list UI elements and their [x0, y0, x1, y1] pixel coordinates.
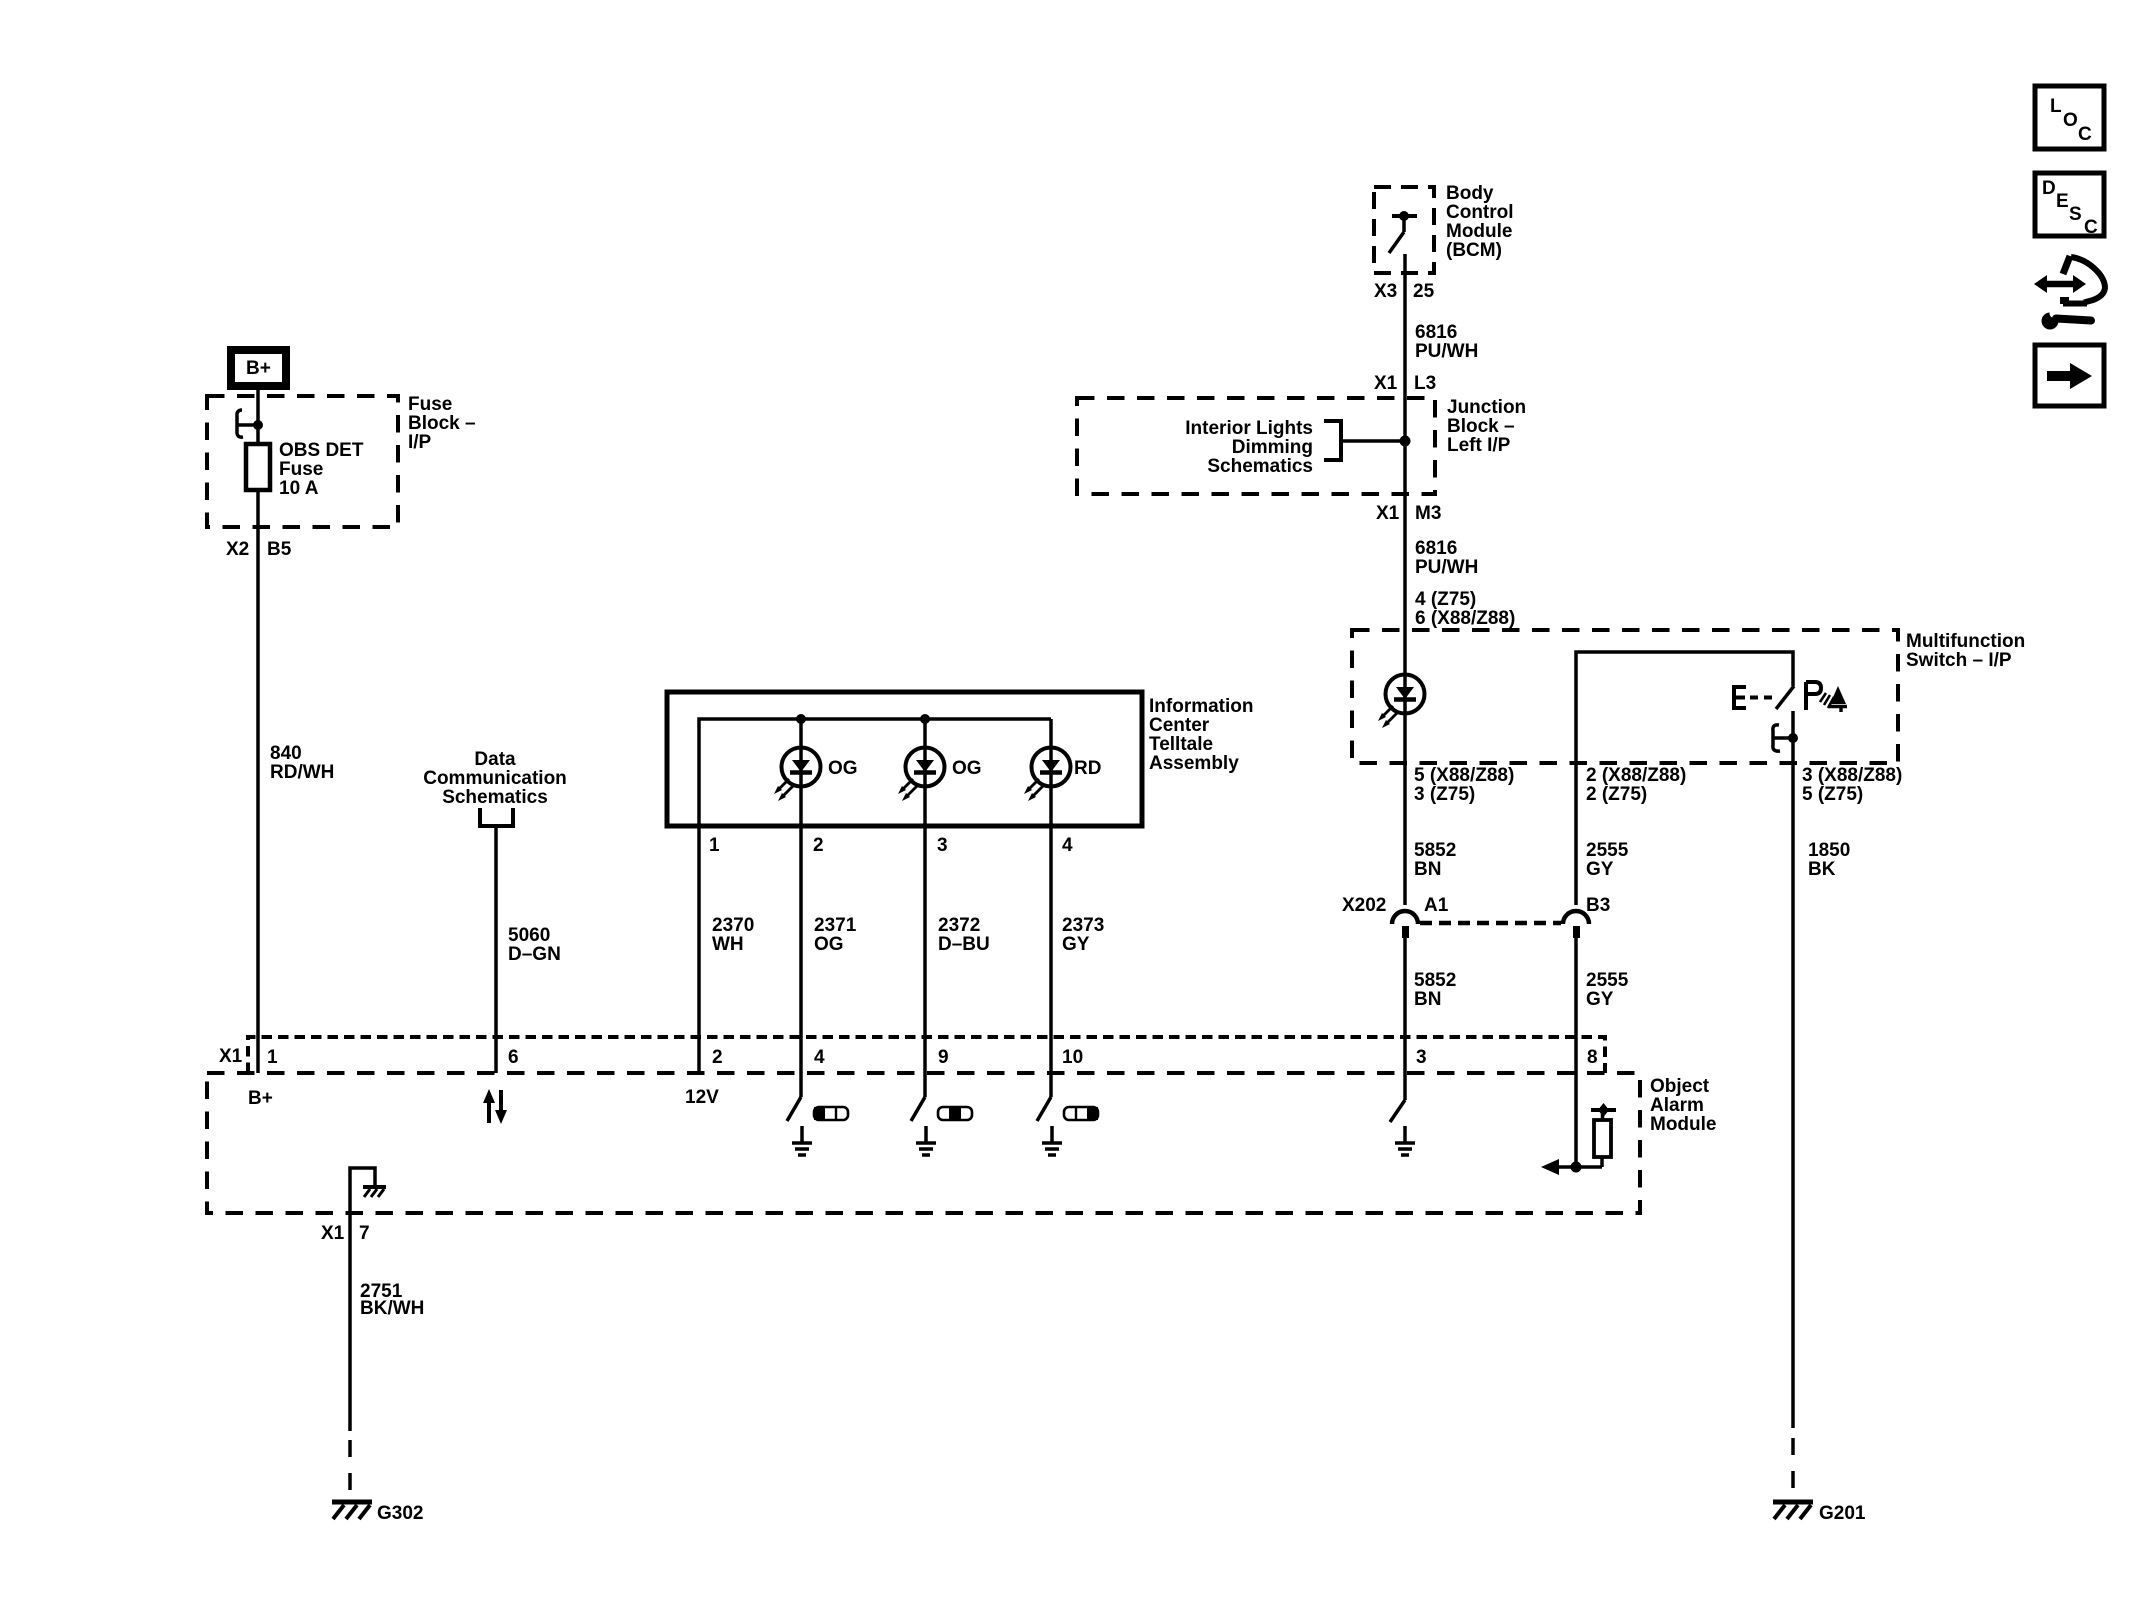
svg-text:3: 3 — [937, 835, 948, 856]
svg-text:OBS DET: OBS DET — [279, 440, 364, 461]
svg-text:Body: Body — [1446, 183, 1494, 204]
svg-text:8: 8 — [1587, 1047, 1598, 1068]
svg-text:Fuse: Fuse — [279, 459, 323, 480]
svg-text:2371: 2371 — [814, 915, 857, 936]
wire middle multifunction down to X202 — [1574, 763, 1578, 905]
svg-text:G302: G302 — [377, 1503, 423, 1524]
svg-text:L: L — [2050, 96, 2062, 117]
junction dot bus pin2 — [796, 714, 806, 724]
park switch supply loop wire — [1576, 652, 1793, 763]
information center telltale assembly box — [667, 692, 1142, 826]
wire BCM X3-25 down — [1403, 254, 1407, 630]
park switch blade — [1776, 686, 1794, 709]
svg-text:Junction: Junction — [1447, 397, 1526, 418]
svg-text:WH: WH — [712, 934, 744, 955]
svg-text:Information: Information — [1149, 696, 1254, 717]
ground wire dashes G201 — [1791, 1438, 1795, 1492]
svg-text:B3: B3 — [1586, 895, 1610, 916]
svg-text:Fuse: Fuse — [408, 394, 452, 415]
svg-text:1: 1 — [267, 1047, 278, 1068]
park switch actuator E — [1734, 687, 1746, 708]
svg-text:C: C — [2084, 217, 2098, 238]
svg-text:BK/WH: BK/WH — [360, 1298, 424, 1319]
svg-text:PU/WH: PU/WH — [1415, 557, 1478, 578]
svg-text:4 (Z75): 4 (Z75) — [1415, 589, 1476, 610]
fuse OBS DET 10A — [246, 444, 270, 490]
LED indicator OG 2 — [898, 719, 982, 1097]
connector X202 male terminal A1 — [1402, 926, 1409, 938]
svg-text:2555: 2555 — [1586, 970, 1629, 991]
svg-text:Object: Object — [1650, 1076, 1710, 1097]
svg-text:6816: 6816 — [1415, 322, 1457, 343]
wire 5060 D-GN — [494, 826, 498, 1073]
svg-text:5852: 5852 — [1414, 840, 1456, 861]
svg-text:1: 1 — [709, 835, 720, 856]
svg-text:6 (X88/Z88): 6 (X88/Z88) — [1415, 608, 1515, 629]
svg-text:BN: BN — [1414, 989, 1441, 1010]
driver switch pin 3 — [1390, 1100, 1415, 1155]
svg-text:PU/WH: PU/WH — [1415, 341, 1478, 362]
driver switch pin 4 — [787, 1097, 812, 1155]
svg-text:B5: B5 — [267, 539, 292, 560]
svg-text:BN: BN — [1414, 859, 1441, 880]
actuator dashed link — [1750, 696, 1772, 700]
svg-text:Assembly: Assembly — [1149, 753, 1239, 774]
wire B3 to module — [1574, 938, 1578, 1167]
junction block left I/P dashed box — [1077, 398, 1435, 494]
svg-text:X2: X2 — [226, 539, 249, 560]
signal arrow left — [1556, 1165, 1602, 1169]
wire LED column through box — [1403, 630, 1407, 905]
internal chassis ground — [363, 1187, 386, 1197]
svg-text:B+: B+ — [246, 358, 271, 379]
svg-text:B+: B+ — [248, 1088, 273, 1109]
beeper icon P with sound waves — [1806, 682, 1847, 712]
BCM internal switch — [1389, 211, 1417, 253]
junction dot park switch — [1788, 733, 1798, 743]
resistor top lead — [1601, 1112, 1605, 1120]
svg-text:1850: 1850 — [1808, 840, 1850, 861]
ground G201 — [1773, 1502, 1813, 1519]
junction dot fuse feed — [253, 420, 263, 430]
svg-text:2 (X88/Z88): 2 (X88/Z88) — [1586, 765, 1686, 786]
svg-text:10 A: 10 A — [279, 478, 319, 499]
svg-text:X1: X1 — [321, 1223, 345, 1244]
indicator cells pin 4 — [814, 1107, 848, 1120]
indicator cells pin 10 — [1064, 1107, 1098, 1120]
svg-text:GY: GY — [1586, 989, 1614, 1010]
svg-text:2372: 2372 — [938, 915, 980, 936]
wire bracket to junction — [1341, 439, 1405, 443]
internal supply T bar with diamond — [1591, 1108, 1616, 1112]
svg-text:M3: M3 — [1415, 503, 1441, 524]
DESC legend box — [2035, 173, 2104, 238]
svg-text:Center: Center — [1149, 715, 1210, 736]
svg-text:Dimming: Dimming — [1232, 437, 1313, 458]
svg-text:BK: BK — [1808, 859, 1836, 880]
object alarm module dashed box — [207, 1073, 1640, 1213]
data communication bracket — [480, 808, 513, 826]
svg-text:840: 840 — [270, 743, 302, 764]
svg-text:L3: L3 — [1414, 373, 1436, 394]
svg-text:5 (X88/Z88): 5 (X88/Z88) — [1414, 765, 1514, 786]
svg-text:Module: Module — [1446, 221, 1513, 242]
junction dot bus pin3 — [920, 714, 930, 724]
wire pin1 to X1 — [697, 826, 701, 1073]
repair icon wrench — [2042, 309, 2092, 330]
svg-text:5 (Z75): 5 (Z75) — [1802, 784, 1863, 805]
serial data down arrow — [499, 1090, 503, 1112]
connector X202 male terminal B3 — [1573, 926, 1580, 938]
svg-text:2: 2 — [813, 835, 824, 856]
svg-text:5060: 5060 — [508, 925, 550, 946]
fuse block I/P dashed box — [207, 396, 398, 527]
repair icon double arrow — [2034, 275, 2086, 293]
LED in multifunction switch — [1378, 675, 1425, 729]
svg-text:I/P: I/P — [408, 432, 432, 453]
svg-text:3 (X88/Z88): 3 (X88/Z88) — [1802, 765, 1902, 786]
svg-text:X1: X1 — [1374, 373, 1398, 394]
LED indicator RD — [1024, 719, 1101, 1097]
svg-text:6: 6 — [508, 1047, 519, 1068]
svg-text:OG: OG — [952, 758, 982, 779]
multifunction switch I/P dashed box — [1352, 630, 1898, 763]
wire through fuse down to module — [256, 490, 260, 1073]
svg-text:Schematics: Schematics — [1207, 456, 1313, 477]
svg-text:S: S — [2069, 204, 2082, 225]
svg-text:Telltale: Telltale — [1149, 734, 1213, 755]
svg-text:C: C — [2078, 124, 2092, 145]
svg-text:X202: X202 — [1342, 895, 1386, 916]
body control module BCM dashed box — [1374, 187, 1434, 273]
svg-text:O: O — [2063, 110, 2078, 131]
svg-text:3: 3 — [1416, 1047, 1427, 1068]
svg-text:Data: Data — [474, 749, 516, 770]
svg-text:3 (Z75): 3 (Z75) — [1414, 784, 1475, 805]
svg-text:GY: GY — [1062, 934, 1090, 955]
svg-text:Alarm: Alarm — [1650, 1095, 1704, 1116]
svg-text:G201: G201 — [1819, 1503, 1866, 1524]
svg-text:(BCM): (BCM) — [1446, 240, 1502, 261]
resistor — [1594, 1120, 1611, 1157]
svg-text:D–BU: D–BU — [938, 934, 990, 955]
svg-text:OG: OG — [828, 758, 858, 779]
connector X202 female half A1 — [1392, 911, 1418, 924]
junction dot in junction block — [1400, 436, 1411, 447]
driver switch pin 9 — [911, 1097, 936, 1155]
svg-text:12V: 12V — [685, 1087, 719, 1108]
svg-text:D–GN: D–GN — [508, 944, 561, 965]
svg-text:Module: Module — [1650, 1114, 1717, 1135]
svg-text:OG: OG — [814, 934, 844, 955]
driver switch pin 10 — [1037, 1097, 1062, 1155]
svg-text:Block –: Block – — [408, 413, 476, 434]
svg-text:X1: X1 — [1376, 503, 1400, 524]
svg-text:Multifunction: Multifunction — [1906, 631, 2025, 652]
svg-text:Schematics: Schematics — [442, 787, 548, 808]
svg-text:9: 9 — [938, 1047, 949, 1068]
connector X1 dotted line — [248, 1037, 1605, 1073]
svg-text:E: E — [2056, 191, 2069, 212]
svg-text:X3: X3 — [1374, 281, 1397, 302]
svg-text:RD/WH: RD/WH — [270, 762, 334, 783]
ground G302 — [332, 1502, 372, 1519]
resistor branch wire — [1600, 1157, 1604, 1167]
svg-text:2555: 2555 — [1586, 840, 1629, 861]
LOC legend box — [2035, 86, 2104, 149]
wire B+ feed to fuse — [256, 390, 260, 444]
svg-text:D: D — [2042, 178, 2056, 199]
indicator cells pin 9 — [938, 1107, 972, 1120]
svg-text:2370: 2370 — [712, 915, 754, 936]
svg-text:2: 2 — [712, 1047, 723, 1068]
terminal hook at park switch — [1773, 725, 1780, 751]
svg-text:Switch – I/P: Switch – I/P — [1906, 650, 2012, 671]
ground wire dashes G302 — [348, 1440, 352, 1490]
connector X202 female half B3 — [1563, 911, 1589, 924]
internal 12V bus wire — [699, 719, 1051, 826]
svg-text:Communication: Communication — [423, 768, 567, 789]
svg-text:Control: Control — [1446, 202, 1514, 223]
wire below park switch — [1791, 711, 1795, 1428]
svg-text:25: 25 — [1413, 281, 1435, 302]
svg-text:5852: 5852 — [1414, 970, 1456, 991]
svg-text:X1: X1 — [219, 1046, 243, 1067]
svg-text:4: 4 — [814, 1047, 825, 1068]
svg-text:Left I/P: Left I/P — [1447, 435, 1511, 456]
svg-text:2 (Z75): 2 (Z75) — [1586, 784, 1647, 805]
svg-text:Block –: Block – — [1447, 416, 1515, 437]
svg-text:A1: A1 — [1424, 895, 1449, 916]
pin 8 junction dot — [1571, 1162, 1582, 1173]
svg-text:7: 7 — [359, 1223, 370, 1244]
wire A1 to module — [1403, 938, 1407, 1100]
svg-text:4: 4 — [1062, 835, 1073, 856]
svg-text:6816: 6816 — [1415, 538, 1457, 559]
next page arrow box — [2035, 345, 2104, 406]
svg-text:GY: GY — [1586, 859, 1614, 880]
power symbol B+ box — [227, 346, 290, 390]
repair icon outline arrow — [2060, 256, 2105, 304]
svg-text:2373: 2373 — [1062, 915, 1104, 936]
LED indicator OG 1 — [774, 719, 858, 1097]
svg-text:Interior Lights: Interior Lights — [1185, 418, 1313, 439]
serial data up arrow — [487, 1101, 491, 1123]
connector X202 dashed body line — [1420, 921, 1561, 926]
svg-text:10: 10 — [1062, 1047, 1083, 1068]
terminal hook in fuse block — [237, 410, 243, 437]
interior lights bracket — [1324, 421, 1341, 460]
svg-text:RD: RD — [1074, 758, 1101, 779]
internal ground leg — [350, 1168, 375, 1431]
